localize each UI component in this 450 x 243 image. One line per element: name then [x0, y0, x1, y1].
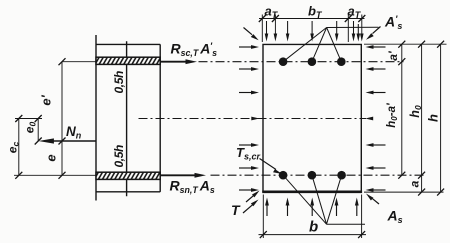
svg-text:h0: h0	[408, 105, 423, 118]
svg-text:Rsn,TAs: Rsn,TAs	[170, 178, 215, 195]
svg-text:e0: e0	[23, 122, 38, 134]
svg-text:bT: bT	[308, 4, 323, 21]
svg-text:0,5h: 0,5h	[112, 145, 126, 167]
svg-text:Ts,cr: Ts,cr	[236, 145, 260, 162]
svg-text:Nn: Nn	[66, 124, 82, 141]
svg-text:h: h	[426, 114, 441, 122]
svg-text:b: b	[309, 219, 318, 236]
svg-text:ec: ec	[6, 142, 21, 154]
svg-text:aT: aT	[348, 4, 362, 21]
svg-text:h0-a': h0-a'	[386, 102, 399, 128]
svg-text:aT: aT	[265, 4, 279, 21]
svg-text:T: T	[231, 202, 241, 218]
svg-text:a: a	[407, 180, 421, 187]
svg-text:e: e	[44, 154, 59, 161]
svg-text:a': a'	[386, 50, 400, 61]
svg-text:Rsc,TA's: Rsc,TA's	[171, 41, 218, 59]
svg-text:e': e'	[39, 94, 54, 105]
svg-text:A's: A's	[384, 14, 402, 32]
svg-text:0,5h: 0,5h	[112, 71, 126, 93]
svg-text:As: As	[387, 208, 403, 225]
